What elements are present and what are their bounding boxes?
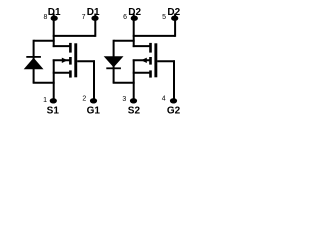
svg-text:S1: S1 [47,106,60,117]
svg-text:D2: D2 [128,7,141,18]
svg-text:2: 2 [82,95,86,102]
svg-text:3: 3 [122,96,126,103]
svg-text:4: 4 [162,95,166,102]
svg-text:D1: D1 [87,7,100,18]
svg-text:S2: S2 [128,106,141,117]
svg-text:1: 1 [43,97,47,104]
svg-text:8: 8 [43,14,47,21]
svg-text:D2: D2 [167,7,180,18]
svg-text:6: 6 [123,14,127,21]
svg-text:D1: D1 [48,7,61,18]
svg-text:7: 7 [82,14,86,21]
svg-text:G2: G2 [167,106,181,117]
svg-text:5: 5 [162,14,166,21]
svg-text:G1: G1 [87,106,101,117]
